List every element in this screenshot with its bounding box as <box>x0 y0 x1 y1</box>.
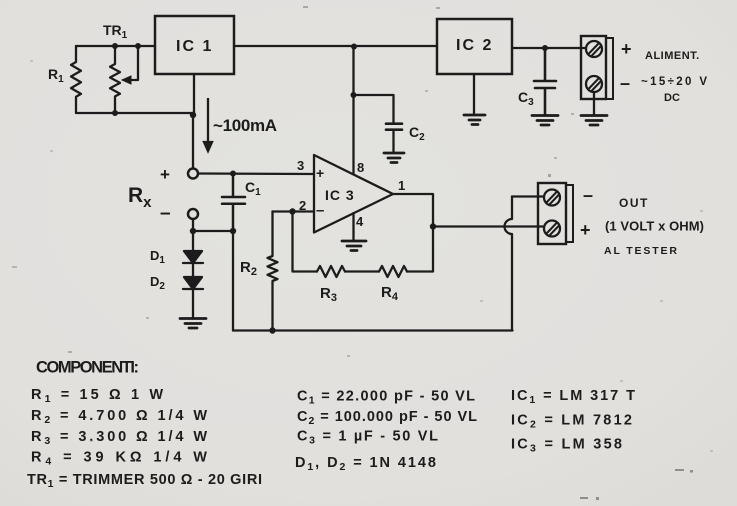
resistor R2 <box>268 212 278 331</box>
junction Rx minus <box>190 228 196 234</box>
svg-text:+: + <box>621 39 632 59</box>
wire Rx- down <box>192 219 194 231</box>
wire pin2 <box>273 210 315 212</box>
node Rx minus terminal <box>188 209 198 219</box>
junction C1 bottom <box>230 228 236 234</box>
svg-text:–: – <box>583 185 593 205</box>
svg-text:4: 4 <box>356 214 364 229</box>
svg-text:C3 = 1 µF - 50 VL: C3 = 1 µF - 50 VL <box>297 429 438 447</box>
svg-text:DC: DC <box>664 92 680 104</box>
junction R2 bottom <box>269 327 275 333</box>
trimmer wiper arrowhead <box>122 76 131 84</box>
junction pin2 feedback <box>289 208 295 214</box>
junction pin8 rail <box>351 44 357 50</box>
svg-text:3: 3 <box>297 158 304 173</box>
ground C2 <box>384 153 404 163</box>
junction TR1 top <box>112 43 118 49</box>
wire to OUT- screw <box>512 195 545 197</box>
ground C3 <box>532 116 558 126</box>
wire bottom rail <box>233 329 513 331</box>
wire top rail left <box>76 45 155 47</box>
wire bottom loop <box>76 112 193 114</box>
svg-text:COMPONENTI:: COMPONENTI: <box>36 359 139 377</box>
wire output pin1 <box>393 194 433 227</box>
wire to C2 <box>354 95 394 123</box>
resistor R4 <box>379 266 407 277</box>
svg-text:AL TESTER: AL TESTER <box>604 245 677 257</box>
ground IC2 <box>464 115 485 125</box>
svg-text:(1 VOLT x OHM): (1 VOLT x OHM) <box>605 219 704 234</box>
svg-text:D1, D2 = 1N 4148: D1, D2 = 1N 4148 <box>295 455 436 473</box>
svg-text:OUT: OUT <box>619 196 649 210</box>
svg-text:IC3 = LM 358: IC3 = LM 358 <box>511 437 622 455</box>
capacitor C2 <box>386 124 402 130</box>
svg-text:8: 8 <box>357 160 364 175</box>
junction IC1 output <box>190 112 196 118</box>
wire top rail mid <box>234 45 437 47</box>
node Rx plus terminal <box>188 169 198 179</box>
IC2 box <box>437 19 512 74</box>
junction C3 rail <box>542 45 548 51</box>
svg-text:–: – <box>160 203 171 224</box>
capacitor C3 <box>534 48 556 115</box>
svg-text:C2 = 100.000 pF - 50 VL: C2 = 100.000 pF - 50 VL <box>297 409 477 427</box>
svg-text:C1 = 22.000 pF - 50 VL: C1 = 22.000 pF - 50 VL <box>297 389 475 407</box>
wire IC1 output down <box>193 74 195 115</box>
current arrow 100mA <box>204 98 212 151</box>
component list <box>27 359 635 491</box>
svg-text:R4 = 39 KΩ 1/4 W: R4 = 39 KΩ 1/4 W <box>31 450 207 468</box>
junction C2 branch <box>351 92 357 98</box>
wire R4 to output <box>407 227 433 272</box>
trimmer TR1 <box>110 46 120 113</box>
ground pin4 <box>342 241 366 251</box>
svg-text:–: – <box>620 73 630 93</box>
svg-text:1: 1 <box>398 178 405 193</box>
wire top rail right <box>512 47 586 49</box>
svg-text:+: + <box>160 165 170 184</box>
wire node to C1 bottom <box>193 230 233 232</box>
svg-text:~100mA: ~100mA <box>213 116 277 135</box>
ground diodes <box>180 319 206 329</box>
ground ALIMENT <box>581 116 607 126</box>
IC1 box <box>155 16 234 74</box>
resistor R1 <box>71 46 81 113</box>
svg-text:2: 2 <box>299 198 306 213</box>
capacitor C1 <box>222 174 245 232</box>
svg-text:TR1 = TRIMMER 500 Ω - 20 GIRI: TR1 = TRIMMER 500 Ω - 20 GIRI <box>27 472 262 490</box>
diode D2 <box>183 277 203 289</box>
op-amp U1 triangle <box>314 155 393 233</box>
svg-text:ALIMENT.: ALIMENT. <box>645 50 700 62</box>
wire feedback down <box>293 212 318 272</box>
diode D1 <box>183 251 203 263</box>
wire between diodes <box>192 263 194 277</box>
wire pin4 <box>352 213 354 240</box>
wire down to bottom rail <box>232 231 234 331</box>
svg-text:–: – <box>316 202 324 219</box>
svg-text:+: + <box>316 165 324 181</box>
wire diodes top <box>192 231 194 251</box>
wire IC1 down to Rx+ <box>192 115 194 169</box>
trimmer TR1 wiper <box>129 46 138 80</box>
wire OUT- vertical with hop <box>505 197 512 331</box>
wire to OUT+ screw <box>433 225 545 227</box>
wire D2 to ground <box>192 289 194 318</box>
junction wiper top <box>135 43 141 49</box>
wire pin8 <box>352 47 354 174</box>
wire IC2 ground <box>473 74 475 114</box>
junction C1 top <box>230 171 236 177</box>
wire R3-R4 <box>345 270 379 272</box>
junction output node <box>430 223 436 229</box>
svg-text:IC 3: IC 3 <box>325 187 355 203</box>
resistor R3 <box>317 266 345 277</box>
wire Rx+ to pin3 <box>198 172 314 175</box>
svg-text:IC 1: IC 1 <box>176 38 213 55</box>
junction TR1 bottom <box>112 110 118 116</box>
terminal block ALIMENT <box>581 36 613 99</box>
wire ALIMENT minus to ground <box>593 92 595 114</box>
wire C2 to ground <box>392 130 394 152</box>
terminal block OUT <box>538 183 573 244</box>
svg-text:+: + <box>580 220 591 240</box>
svg-text:IC 2: IC 2 <box>456 37 493 54</box>
